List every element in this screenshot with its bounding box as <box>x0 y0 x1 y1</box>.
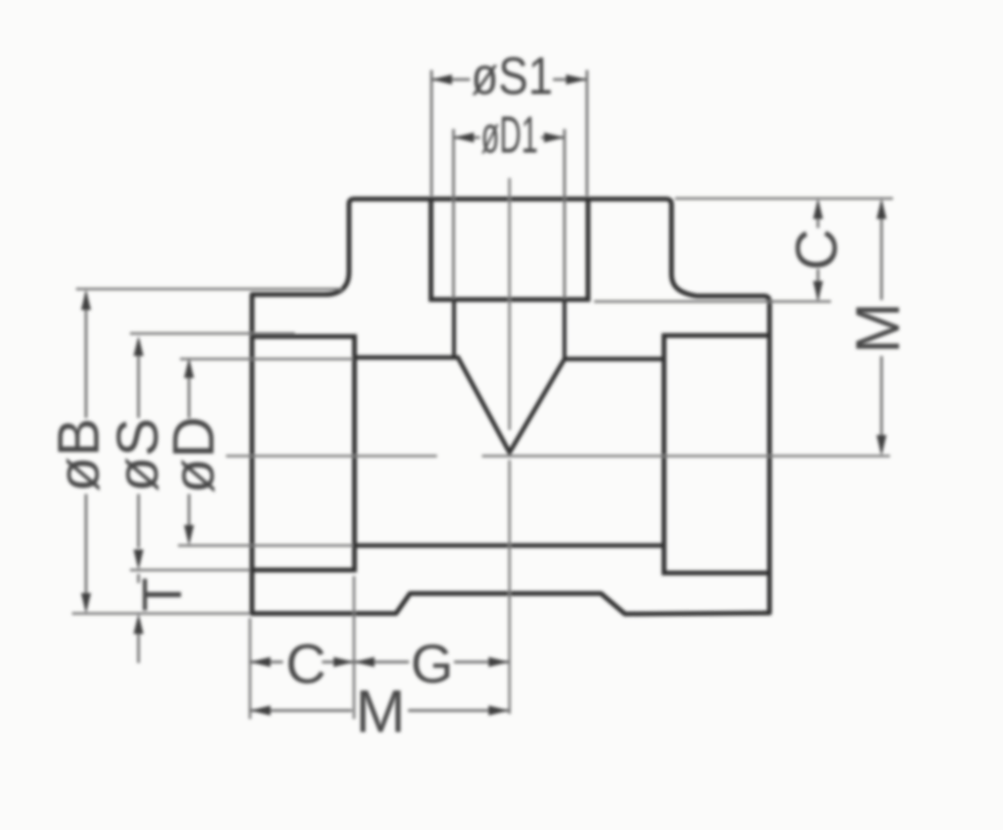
bore top lines and drill cone <box>355 358 665 453</box>
svg-text:M: M <box>356 678 406 745</box>
centerline horizontal <box>226 455 890 458</box>
dimension phiS left with T <box>106 336 194 663</box>
svg-text:C: C <box>785 229 850 271</box>
body upper outline <box>252 199 770 614</box>
branch thread rectangle <box>431 198 588 300</box>
dimension phiD left <box>162 358 227 546</box>
svg-text:G: G <box>411 633 454 695</box>
dimension C right <box>785 199 850 302</box>
bore bottom line <box>355 543 663 548</box>
branch bore verticals <box>454 300 565 360</box>
right socket <box>664 336 770 574</box>
right extension line top <box>675 197 893 200</box>
svg-text:M: M <box>844 302 913 354</box>
right extension line shoulder <box>594 300 831 303</box>
extension lines phiS1 <box>432 70 588 196</box>
centerline vertical <box>508 178 511 714</box>
svg-text:C: C <box>286 632 326 695</box>
svg-text:T: T <box>130 577 193 611</box>
dimension phiD1 <box>454 107 565 164</box>
svg-text:øS1: øS1 <box>471 47 553 105</box>
dimension M bottom <box>250 678 509 745</box>
dimension G bottom <box>354 633 509 695</box>
left socket <box>252 337 355 571</box>
dimension M right <box>844 199 913 457</box>
left extension lines <box>76 288 342 291</box>
bottom extension lines <box>250 576 354 719</box>
extension lines phiD1 <box>454 129 565 299</box>
dimension C bottom <box>250 632 354 695</box>
svg-text:øD1: øD1 <box>481 107 538 164</box>
svg-text:øD: øD <box>162 416 227 493</box>
dimension phiB left <box>47 290 112 614</box>
dimension phiS1 <box>432 47 588 105</box>
svg-text:øB: øB <box>47 418 112 492</box>
